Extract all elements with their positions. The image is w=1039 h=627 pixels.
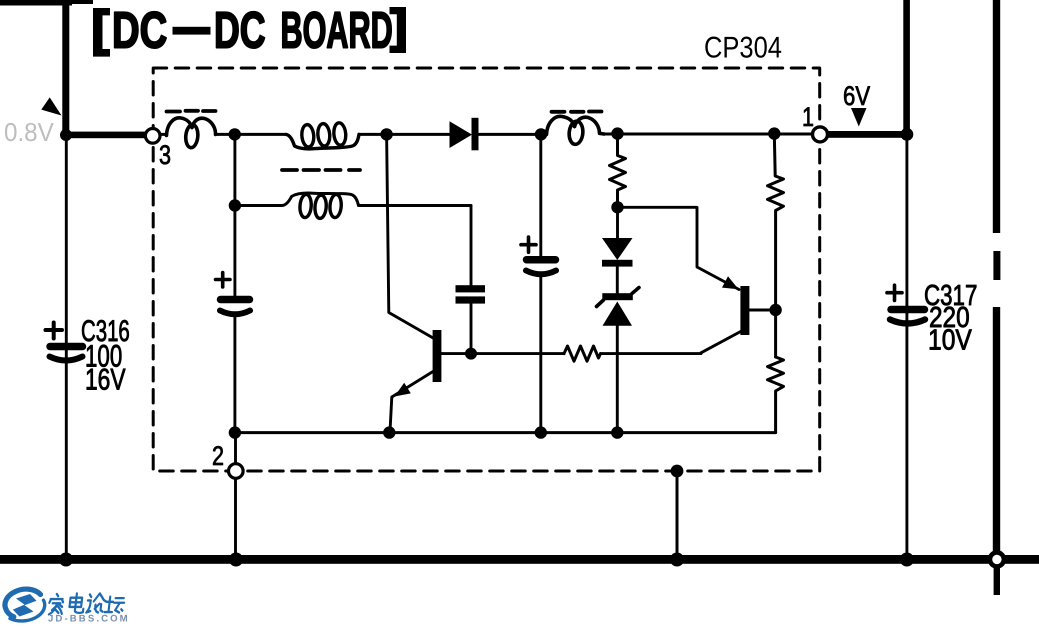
node: dot on dashed border <box>671 465 684 478</box>
arrow: 6V output arrowhead <box>851 108 867 127</box>
svg-text:CP304: CP304 <box>704 32 782 65</box>
node: bus junction dot <box>59 553 73 567</box>
wire: thick output wire node1 to right rail <box>827 131 909 138</box>
wire: thick horizontal feed to node 3 <box>62 132 146 139</box>
node terminal 3 <box>145 129 160 144</box>
svg-text:3: 3 <box>159 140 171 170</box>
wire: Q1 base line to the right <box>441 352 564 355</box>
node: junction dot Q2 base <box>769 304 781 316</box>
watermark logo swirl <box>5 589 45 621</box>
resistor (vertical x=776 lower) <box>768 357 784 433</box>
inductor L winding B (three loops up) <box>286 134 359 148</box>
zener diode ZD <box>616 267 619 293</box>
transformer core dashes between windings B and C <box>282 168 360 172</box>
node: junction dot <box>229 128 241 140</box>
resistor (horizontal, base line) <box>564 346 601 361</box>
capacitor C316 <box>50 343 83 351</box>
wire: node 2 stem <box>234 433 237 555</box>
svg-text:2: 2 <box>212 441 224 471</box>
transistor Q2 base wire <box>749 309 775 312</box>
transistor Q2 collector <box>701 331 743 353</box>
node terminal 1 <box>813 127 828 142</box>
node: junction dot <box>380 128 392 140</box>
resistor (vertical at x=617 top) <box>610 134 626 208</box>
node: junction dot <box>611 201 623 213</box>
wire: vertical line x=235 node3 branch down <box>233 134 236 296</box>
wire: board ground tap at x=677 <box>676 471 679 555</box>
title bracket right <box>390 7 407 53</box>
char Lun <box>86 593 106 612</box>
ground bus (thick bottom line) <box>0 555 1039 564</box>
node: junction dot <box>611 426 623 438</box>
wire: far-right broken thick line <box>993 0 1000 233</box>
capacitor (electrolytic at x=541) plus sign <box>521 237 536 252</box>
char Dian <box>69 598 82 607</box>
resistor (vertical x=776 upper) <box>768 134 784 357</box>
svg-text:BOARD: BOARD <box>281 2 393 59</box>
title bracket left <box>93 8 110 57</box>
node terminal 2 <box>229 464 244 479</box>
diode D2 (series pair top) <box>616 207 619 238</box>
svg-text:16V: 16V <box>85 364 126 397</box>
inductor L winding C (three loops down) <box>235 193 471 205</box>
capacitor (electrolytic on x=235) plus sign <box>216 273 231 288</box>
node: junction dot <box>383 426 395 438</box>
node: bus junction dot <box>670 553 684 567</box>
wire: left thin vertical down to ground bus <box>65 138 68 555</box>
transistor Q2 base bar <box>740 286 749 335</box>
char Tan <box>105 597 125 613</box>
capacitor C316 plus sign <box>46 323 63 339</box>
node: junction dot <box>535 128 547 140</box>
wire: right thin vertical to ground bus <box>905 137 908 555</box>
svg-text:10V: 10V <box>928 325 972 357</box>
svg-text:JD-BBS.COM: JD-BBS.COM <box>48 614 130 625</box>
node: junction dot winding C tap <box>229 199 241 211</box>
capacitor (nonpolar at x=471) <box>470 206 473 286</box>
wire: internal ground rail <box>235 431 776 434</box>
capacitor C317 <box>891 306 925 314</box>
wire: Q2 emitter feed <box>618 207 740 289</box>
node: bus junction dot <box>900 553 914 567</box>
capacitor (electrolytic on x=235) <box>221 296 250 304</box>
svg-text:1: 1 <box>802 102 814 132</box>
arrow: input direction arrowhead <box>41 97 61 115</box>
transistor Q1 emitter <box>390 372 433 432</box>
watermark text JiaDian LunTan <box>48 593 125 614</box>
node: junction dot <box>901 128 914 141</box>
node: junction dot at 0.8V line <box>60 129 72 141</box>
svg-text:DC: DC <box>214 2 266 59</box>
node: junction dot <box>611 127 623 139</box>
char Jia <box>48 594 64 614</box>
node: junction dot <box>768 127 780 139</box>
wire: right thick vertical supply line <box>903 0 910 136</box>
node: junction dot <box>535 426 547 438</box>
inductor T1 winding D (dashed core above) <box>552 110 602 114</box>
transistor Q1 collector wire <box>387 134 434 338</box>
transistor Q1 base bar <box>433 330 442 382</box>
node: open terminal on bus <box>990 552 1004 566</box>
inductor T1 winding A (dashed core above) <box>167 109 216 113</box>
node: junction dot on base line <box>465 348 477 360</box>
diode D (rectifier) <box>450 121 473 148</box>
node: bus junction dot <box>229 553 243 567</box>
capacitor (electrolytic at x=541) <box>539 134 542 256</box>
svg-text:DC: DC <box>112 2 167 59</box>
svg-text:0.8V: 0.8V <box>4 117 54 147</box>
wire: internal top rail segments <box>160 133 813 136</box>
wire: left thick vertical supply line <box>62 0 69 137</box>
wire: top-left thick horizontal stub <box>0 0 72 6</box>
CP304 dashed board outline <box>153 68 820 471</box>
capacitor C317 plus sign <box>887 285 902 300</box>
svg-text:6V: 6V <box>843 81 870 111</box>
node: junction dot <box>229 426 241 438</box>
